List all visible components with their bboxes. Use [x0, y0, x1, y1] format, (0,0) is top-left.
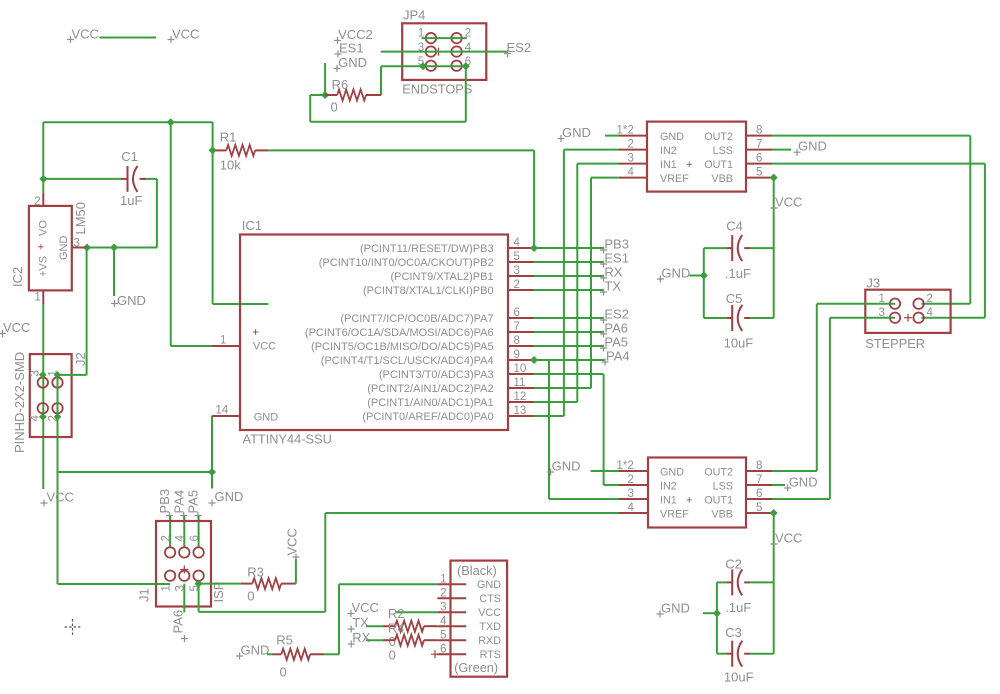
net label ES2 — [600, 307, 629, 324]
svg-text:IC2: IC2 — [10, 267, 25, 287]
net label GND (lower driver left) — [547, 459, 580, 476]
wire — [169, 516, 171, 548]
svg-text:VBB: VBB — [711, 173, 733, 185]
connector JP4 ENDSTOPS — [402, 8, 486, 97]
wire — [87, 247, 114, 249]
svg-text:(PCINT10/INT0/OC0A/CKOUT)PB2: (PCINT10/INT0/OC0A/CKOUT)PB2 — [319, 257, 494, 269]
svg-text:8: 8 — [514, 335, 520, 347]
svg-text:GND: GND — [58, 236, 70, 261]
net label GND (below IC1) — [209, 489, 244, 507]
wire — [465, 66, 467, 122]
net label VCC (top left 2) — [168, 27, 200, 44]
wire — [549, 498, 619, 500]
wire — [969, 136, 971, 304]
svg-text:OUT2: OUT2 — [704, 131, 733, 143]
net label PA6 (J1) — [171, 610, 189, 642]
svg-text:GND: GND — [552, 459, 581, 474]
wire — [58, 583, 171, 585]
junction — [83, 244, 91, 252]
svg-text:C5: C5 — [726, 291, 743, 306]
FTDI pin 1 GND — [437, 574, 501, 592]
svg-text:+: + — [686, 495, 692, 507]
FTDI pin 3 VCC — [437, 602, 501, 620]
IC1 pin 6 (PCINT7/ICP/OC0B/ADC7)PA7 — [340, 307, 534, 325]
svg-text:+: + — [36, 244, 48, 250]
IC1 pin 7 (PCINT6/OC1A/SDA/MOSI/ADC6)PA6 — [305, 321, 534, 339]
wire — [534, 261, 604, 263]
wire — [534, 331, 604, 333]
wire — [533, 150, 535, 248]
junction — [39, 413, 47, 421]
svg-text:PA6: PA6 — [604, 321, 628, 336]
net label PB3 — [600, 237, 629, 254]
svg-text:7: 7 — [756, 139, 762, 151]
svg-text:1: 1 — [440, 574, 446, 586]
svg-text:TX: TX — [604, 279, 621, 294]
wire — [772, 470, 817, 472]
junction — [39, 175, 47, 183]
net label VCC (FTDI) — [347, 600, 379, 617]
wire — [146, 178, 157, 180]
resistor R6 — [325, 77, 381, 115]
wire — [339, 583, 437, 585]
wire — [604, 484, 619, 486]
upper driver pin 7 LSS — [746, 139, 772, 151]
motor driver U$2 (lower) — [648, 458, 746, 528]
svg-text:(PCINT2/AIN1/ADC2)PA2: (PCINT2/AIN1/ADC2)PA2 — [367, 383, 493, 395]
wire — [534, 373, 604, 375]
wire — [156, 179, 158, 248]
svg-text:(Black): (Black) — [457, 563, 497, 578]
lower driver pin 2 IN2 — [619, 474, 648, 486]
net label GND (below LM50) — [111, 293, 146, 308]
net label ES2 — [504, 40, 531, 57]
wire — [58, 374, 87, 376]
wire — [548, 360, 550, 499]
svg-text:PINHD-2X2-SMD: PINHD-2X2-SMD — [12, 352, 27, 453]
svg-text:6: 6 — [440, 644, 446, 656]
junction — [167, 118, 175, 126]
svg-text:2: 2 — [440, 588, 446, 600]
upper driver pin 4 VREF — [619, 167, 647, 179]
svg-text:4: 4 — [628, 502, 635, 514]
svg-text:VCC: VCC — [172, 27, 199, 42]
svg-text:IN1: IN1 — [660, 495, 677, 507]
wire — [325, 512, 619, 514]
net label VCC (top left) — [67, 27, 99, 44]
wire — [534, 359, 605, 361]
svg-text:LM50: LM50 — [73, 202, 88, 235]
svg-text:1*2: 1*2 — [617, 460, 634, 472]
svg-text:GND: GND — [254, 412, 279, 424]
FTDI pin 6 RTS — [437, 644, 501, 662]
svg-text:LSS: LSS — [713, 481, 733, 493]
net label GND (upper driver left) — [558, 125, 591, 142]
svg-text:(PCINT0/AREF/ADC0)PA0: (PCINT0/AREF/ADC0)PA0 — [362, 411, 493, 423]
wire — [984, 164, 986, 318]
upper driver pin 5 VBB — [746, 167, 772, 179]
junction — [419, 62, 427, 70]
svg-text:RX: RX — [604, 265, 622, 280]
junction — [208, 468, 216, 476]
svg-text:PA4: PA4 — [171, 490, 186, 514]
wire — [703, 612, 717, 614]
resistor R4 — [366, 635, 438, 663]
svg-text:1: 1 — [35, 292, 41, 304]
net label PA5 (J1) — [186, 490, 202, 519]
upper driver pin 1*2 GND — [617, 125, 648, 137]
wire — [703, 248, 705, 318]
sheet origin cross — [65, 619, 81, 635]
net label GND (R5) — [236, 643, 269, 660]
wire — [689, 275, 704, 277]
net label TX (FTDI) — [348, 615, 369, 633]
svg-text:C2: C2 — [725, 557, 742, 572]
wire — [576, 164, 578, 402]
svg-text:RXD: RXD — [478, 635, 501, 647]
wire — [534, 415, 564, 417]
wire — [310, 94, 325, 96]
IC1 pin 8 (PCINT5/OC1B/MISO/DO/ADC5)PA5 — [311, 335, 534, 353]
wire — [213, 303, 269, 305]
net label VCC (below J2) — [41, 490, 74, 507]
svg-text:7: 7 — [756, 474, 762, 486]
wire — [324, 653, 339, 655]
junction — [530, 244, 538, 252]
net label PA6 — [600, 321, 628, 338]
svg-text:C3: C3 — [725, 625, 742, 640]
svg-text:ATTINY44-SSU: ATTINY44-SSU — [243, 432, 332, 447]
svg-text:2: 2 — [514, 279, 520, 291]
wire — [534, 247, 604, 249]
svg-text:IN2: IN2 — [660, 481, 677, 493]
svg-text:RX: RX — [352, 630, 370, 645]
svg-text:3: 3 — [440, 602, 446, 614]
junction — [54, 371, 62, 379]
svg-text:+: + — [252, 325, 259, 339]
net label RX — [600, 265, 623, 282]
svg-text:R2: R2 — [388, 606, 405, 621]
svg-text:(PCINT8/XTAL1/CLKI)PB0: (PCINT8/XTAL1/CLKI)PB0 — [363, 285, 494, 297]
svg-text:+VS: +VS — [38, 256, 50, 277]
wire — [563, 150, 565, 416]
IC1 pin 11 (PCINT2/AIN1/ADC2)PA2 — [367, 377, 534, 395]
svg-text:JP4: JP4 — [403, 8, 425, 23]
upper driver pin 3 IN1 — [619, 153, 647, 165]
junction — [770, 509, 778, 517]
capacitor C2 — [717, 557, 774, 615]
net label GND (upper LSS) — [794, 139, 827, 156]
connector J1 ISP — [137, 521, 227, 607]
svg-text:C1: C1 — [121, 149, 138, 164]
svg-text:GND: GND — [661, 266, 690, 281]
junction — [770, 174, 778, 182]
wire — [817, 303, 895, 305]
svg-text:1uF: 1uF — [120, 193, 142, 208]
wire — [183, 516, 185, 548]
net label RX (FTDI) — [348, 630, 371, 648]
junction — [462, 62, 470, 70]
FTDI pin 2 CTS — [437, 588, 501, 606]
IC1 pin 9 (PCINT4/T1/SCL/USCK/ADC4)PA4 — [321, 349, 534, 367]
svg-text:VCC: VCC — [478, 607, 501, 619]
svg-text:(PCINT7/ICP/OC0B/ADC7)PA7: (PCINT7/ICP/OC0B/ADC7)PA7 — [340, 313, 493, 325]
svg-text:C4: C4 — [726, 218, 743, 233]
net label VCC2 — [334, 27, 373, 44]
lower driver pin 8 OUT2 — [746, 460, 772, 472]
resistor R2 — [366, 606, 438, 649]
svg-text:PA5: PA5 — [604, 335, 628, 350]
svg-text:ENDSTOPS: ENDSTOPS — [402, 82, 472, 97]
svg-text:5: 5 — [514, 251, 520, 263]
svg-text:CTS: CTS — [479, 593, 501, 605]
junction — [700, 272, 708, 280]
wire — [534, 401, 577, 403]
resistor R1 — [216, 130, 268, 173]
svg-text:4: 4 — [30, 415, 42, 422]
svg-text:OUT1: OUT1 — [704, 159, 733, 171]
wire — [86, 248, 88, 375]
svg-text:J1: J1 — [137, 588, 152, 602]
svg-text:10: 10 — [514, 363, 527, 375]
wire — [310, 121, 466, 123]
junction — [54, 413, 62, 421]
svg-text:2: 2 — [628, 139, 634, 151]
wire — [534, 289, 604, 291]
svg-text:1*2: 1*2 — [617, 125, 634, 137]
svg-text:(PCINT6/OC1A/SDA/MOSI/ADC6)PA6: (PCINT6/OC1A/SDA/MOSI/ADC6)PA6 — [305, 327, 494, 339]
svg-text:(PCINT5/OC1B/MISO/DO/ADC5)PA5: (PCINT5/OC1B/MISO/DO/ADC5)PA5 — [311, 341, 494, 353]
svg-text:10uF: 10uF — [724, 670, 754, 685]
wire — [772, 163, 985, 165]
svg-text:4: 4 — [628, 167, 635, 179]
wire — [605, 135, 619, 137]
capacitor C5 — [704, 291, 774, 351]
svg-text:GND: GND — [789, 475, 818, 490]
wire — [380, 66, 382, 95]
wire — [113, 248, 115, 297]
svg-text:4: 4 — [440, 616, 447, 628]
net label PA4 (J1) — [171, 490, 187, 519]
wire — [773, 513, 775, 654]
svg-text:R5: R5 — [276, 633, 293, 648]
svg-text:VCC: VCC — [352, 600, 379, 615]
svg-text:ES2: ES2 — [507, 40, 532, 55]
net label GND (C4 C5) — [657, 266, 690, 283]
wire — [534, 275, 604, 277]
wire — [921, 317, 985, 319]
svg-text:GND: GND — [562, 125, 591, 140]
svg-text:VCC: VCC — [72, 27, 99, 42]
svg-text:4: 4 — [927, 307, 934, 319]
svg-text:VREF: VREF — [660, 173, 689, 185]
pin cross JP4 pad3 — [435, 48, 443, 56]
svg-text:STEPPER: STEPPER — [865, 336, 925, 351]
svg-text:2: 2 — [34, 196, 40, 208]
wire — [42, 122, 44, 193]
wire — [198, 584, 200, 612]
connector J3 STEPPER — [865, 276, 950, 352]
wire — [422, 37, 467, 39]
svg-text:VBB: VBB — [711, 509, 733, 521]
svg-text:R1: R1 — [220, 130, 237, 145]
svg-text:VREF: VREF — [660, 509, 689, 521]
svg-text:4: 4 — [514, 237, 521, 249]
svg-text:5: 5 — [756, 502, 762, 514]
wire — [590, 178, 592, 388]
resistor R3 — [241, 565, 296, 604]
IC1 pin 13 (PCINT0/AREF/ADC0)PA0 — [362, 405, 534, 423]
temperature sensor IC2 LM50 — [10, 193, 88, 304]
svg-text:ES1: ES1 — [604, 251, 629, 266]
wire — [100, 37, 157, 39]
wire — [199, 611, 326, 613]
wire — [211, 416, 213, 472]
svg-text:(PCINT11/RESET/DW)PB3: (PCINT11/RESET/DW)PB3 — [360, 243, 494, 255]
svg-text:IC1: IC1 — [242, 218, 262, 233]
svg-text:J3: J3 — [866, 276, 880, 291]
svg-text:2: 2 — [927, 293, 933, 305]
svg-text:R3: R3 — [247, 565, 264, 580]
svg-text:10uF: 10uF — [724, 336, 754, 351]
svg-text:RTS: RTS — [480, 649, 501, 661]
wire — [534, 317, 604, 319]
pin cross J1 pad3 — [180, 566, 188, 574]
wire — [381, 51, 508, 53]
wire — [43, 121, 212, 123]
svg-text:5: 5 — [440, 630, 446, 642]
upper driver pin 6 OUT1 — [746, 153, 772, 165]
svg-text:ES1: ES1 — [339, 41, 364, 56]
wire — [773, 178, 775, 318]
wire — [534, 387, 591, 389]
svg-text:OUT2: OUT2 — [704, 467, 733, 479]
upper driver pin 2 IN2 — [619, 139, 647, 151]
motor driver U$1 (upper) — [647, 122, 746, 192]
wire — [577, 163, 619, 165]
wire — [198, 516, 200, 548]
svg-text:(PCINT4/T1/SCL/USCK/ADC4)PA4: (PCINT4/T1/SCL/USCK/ADC4)PA4 — [321, 355, 494, 367]
wire — [211, 472, 213, 489]
svg-text:1: 1 — [161, 585, 173, 591]
wire — [183, 584, 185, 613]
svg-text:GND: GND — [660, 131, 684, 143]
connector J2 PINHD-2X2-SMD — [12, 352, 88, 453]
wire — [42, 304, 44, 489]
net label TX — [600, 279, 621, 296]
junction — [530, 356, 538, 364]
svg-text:(PCINT9/XTAL2)PB1: (PCINT9/XTAL2)PB1 — [390, 271, 493, 283]
svg-text:PB3: PB3 — [157, 489, 172, 514]
svg-text:VCC: VCC — [253, 341, 276, 353]
wire — [58, 471, 213, 473]
svg-text:GND: GND — [661, 601, 690, 616]
svg-text:10k: 10k — [220, 158, 241, 173]
capacitor C1 — [120, 149, 146, 208]
svg-text:2: 2 — [161, 535, 173, 541]
svg-text:GND: GND — [660, 467, 684, 479]
wire — [57, 375, 59, 584]
svg-text:VCC: VCC — [775, 531, 802, 546]
net label ES1 — [600, 251, 629, 268]
IC1 pin 3 (PCINT9/XTAL2)PB1 — [390, 265, 534, 283]
svg-text:7: 7 — [514, 321, 520, 333]
IC1 pin 10 (PCINT3/T0/ADC3)PA3 — [379, 363, 534, 381]
svg-text:VCC: VCC — [47, 490, 74, 505]
svg-text:6: 6 — [756, 488, 762, 500]
resistor R5 — [267, 633, 324, 680]
svg-text:5: 5 — [756, 167, 762, 179]
svg-text:IN2: IN2 — [660, 145, 677, 157]
net label GND (JP4) — [334, 55, 367, 72]
wire — [772, 484, 785, 486]
svg-text:4: 4 — [175, 535, 187, 542]
wire — [716, 582, 718, 653]
svg-text:.1uF: .1uF — [725, 600, 751, 615]
lower driver pin 1*2 GND — [617, 460, 649, 472]
svg-text:TX: TX — [352, 615, 369, 630]
lower driver pin 4 VREF — [619, 502, 648, 514]
wire — [603, 374, 605, 485]
pin cross FTDI RTS — [431, 650, 439, 658]
wire — [381, 65, 466, 67]
svg-text:PA6: PA6 — [171, 610, 186, 634]
svg-text:GND: GND — [215, 489, 244, 504]
junction — [713, 609, 721, 617]
wire — [324, 513, 326, 612]
wire — [772, 135, 970, 137]
wire — [591, 470, 619, 472]
junction — [209, 146, 217, 154]
wire — [534, 345, 604, 347]
svg-text:8: 8 — [756, 460, 762, 472]
svg-text:(PCINT1/AIN0/ADC1)PA1: (PCINT1/AIN0/ADC1)PA1 — [367, 397, 493, 409]
junction — [195, 580, 203, 588]
net label VCC (lower VBB) — [771, 531, 803, 548]
svg-text:.1uF: .1uF — [725, 266, 751, 281]
svg-text:3: 3 — [514, 265, 520, 277]
svg-text:6: 6 — [514, 307, 520, 319]
net label PA5 — [600, 335, 628, 352]
wire — [921, 303, 970, 305]
svg-text:LSS: LSS — [713, 145, 733, 157]
svg-text:+: + — [686, 159, 692, 171]
svg-text:VCC: VCC — [3, 320, 30, 335]
junction — [321, 91, 329, 99]
wire — [170, 122, 172, 346]
svg-text:6: 6 — [756, 153, 762, 165]
svg-text:0: 0 — [389, 648, 396, 663]
lower driver pin 7 LSS — [746, 474, 772, 486]
wire — [295, 559, 297, 584]
wire — [171, 345, 212, 347]
svg-text:PB3: PB3 — [604, 237, 629, 252]
wire — [564, 149, 619, 151]
svg-text:0: 0 — [247, 589, 254, 604]
wire — [591, 177, 619, 179]
net label PA4 — [602, 349, 630, 366]
svg-text:3: 3 — [74, 238, 80, 250]
wire — [199, 583, 241, 585]
svg-text:PA4: PA4 — [606, 349, 630, 364]
IC1 pin 5 (PCINT10/INT0/OC0A/CKOUT)PB2 — [319, 251, 534, 269]
svg-text:3: 3 — [628, 153, 634, 165]
svg-text:13: 13 — [514, 405, 527, 417]
svg-text:ES2: ES2 — [604, 307, 629, 322]
upper driver pin 8 OUT2 — [746, 125, 772, 137]
svg-text:ISP: ISP — [211, 582, 226, 603]
net label VCC (left) — [0, 320, 30, 337]
